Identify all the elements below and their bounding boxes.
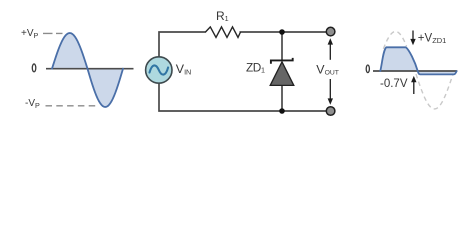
svg-text:-VP: -VP [25, 98, 40, 110]
wire: top left segment (source to R1) [159, 32, 206, 57]
input sine fill [52, 33, 123, 107]
-0.7V level arrow (up) [413, 82, 415, 94]
svg-text:+VZD1: +VZD1 [418, 32, 447, 45]
svg-text:VOUT: VOUT [316, 62, 339, 76]
-Vp dashed level line [46, 105, 100, 107]
junction dot top [279, 29, 285, 35]
Vout lower arrow [329, 79, 331, 99]
input zero axis [46, 68, 134, 70]
svg-text:ZD1: ZD1 [246, 61, 265, 75]
+Vzd1 level arrow (down) [412, 31, 414, 40]
output terminal top [326, 27, 335, 36]
ghost full sine (dashed) [383, 32, 406, 49]
resistor R1 [206, 27, 241, 38]
Vout upper arrow [329, 44, 331, 60]
clipped output stroke [380, 47, 456, 74]
wire: top right segment (R1 to output terminal) [240, 31, 327, 33]
wire: zener branch bottom [281, 85, 283, 111]
zener diode ZD1 (cathode bar with bent tips) [271, 58, 293, 64]
label 0 (output) [366, 65, 369, 73]
output terminal bottom [326, 107, 335, 116]
+Vp dashed level line [43, 32, 63, 34]
svg-text:R1: R1 [216, 9, 229, 23]
wire: bottom segment [159, 83, 326, 111]
input sine stroke [52, 33, 123, 107]
wire: zener branch top [281, 32, 283, 61]
label 0 (input) [32, 64, 36, 72]
AC source VIN [146, 57, 172, 83]
output zero axis [373, 70, 457, 72]
clipped output fill [380, 47, 456, 74]
ghost sine trough (dashed) [416, 71, 454, 109]
junction dot bottom [279, 108, 285, 114]
zener diode ZD1 (anode triangle) [270, 62, 294, 86]
svg-text:-0.7V: -0.7V [380, 78, 408, 90]
svg-text:+VP: +VP [21, 28, 39, 40]
svg-text:VIN: VIN [176, 62, 191, 77]
